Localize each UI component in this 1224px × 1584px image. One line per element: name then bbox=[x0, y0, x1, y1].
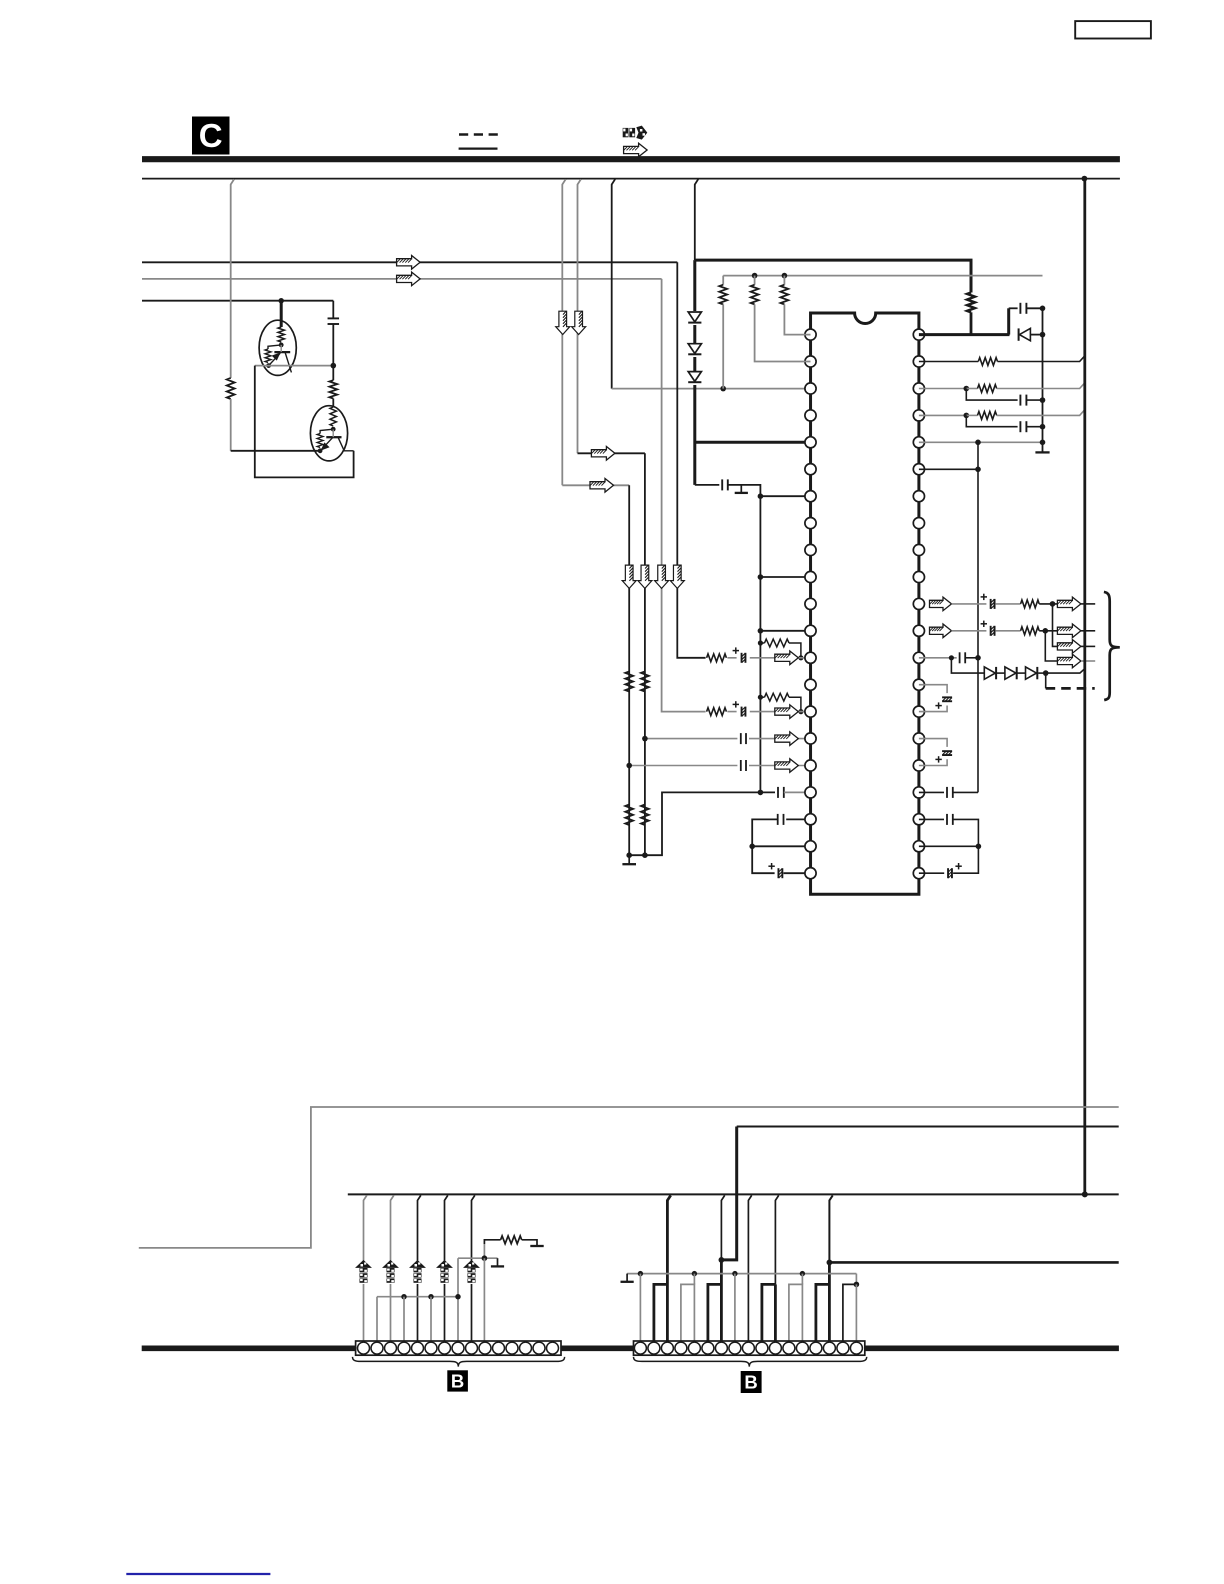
arrow flag on rail A bbox=[397, 256, 421, 270]
resistor loop p13 bbox=[760, 642, 764, 644]
wire p4r cap branch bbox=[966, 415, 1017, 426]
checkered flag CN1 pin1 bbox=[356, 1261, 371, 1284]
capacitor polarized C-p21r bbox=[947, 868, 949, 878]
wire cap to corner bbox=[728, 485, 761, 793]
bus thick bottom left bbox=[142, 1346, 356, 1352]
checkered flag CN1 pin3 bbox=[383, 1261, 398, 1284]
wire p12r branch bbox=[1045, 631, 1057, 661]
wire cn1 drop p4 bbox=[403, 1297, 405, 1341]
short underline bbox=[459, 148, 498, 150]
ground T mid bbox=[735, 485, 748, 493]
hook CN2 p2-p3 bbox=[654, 1284, 668, 1341]
capacitor C-r3 bbox=[1019, 395, 1021, 406]
wire p18r to v978 bbox=[953, 791, 978, 793]
hook CN2 p12-p13 bbox=[789, 1284, 803, 1341]
wire rail B bbox=[142, 278, 662, 280]
node CN2 dist p1 bbox=[638, 1271, 643, 1276]
svg-text:C: C bbox=[199, 117, 223, 154]
resistor R-cn1 bbox=[483, 1244, 485, 1258]
wire col D thick bbox=[693, 260, 696, 485]
capacitor polarized p13 bbox=[733, 647, 750, 664]
wire row p4r bbox=[919, 414, 966, 416]
arrow flag row p15 bbox=[775, 705, 799, 719]
wire lower bus bbox=[348, 1193, 1119, 1195]
capacitor C-r1 bbox=[1019, 303, 1021, 314]
wire p11r branch bbox=[1053, 604, 1058, 647]
wire p11r a bbox=[952, 603, 987, 605]
transistor Q1 body bbox=[259, 320, 296, 375]
wire rail C bbox=[142, 300, 333, 302]
wire col A upper bbox=[562, 179, 565, 485]
wire p4r cap to node bbox=[1026, 426, 1042, 428]
wire cn1 gray link bbox=[458, 1257, 498, 1259]
wire CN2 p5 up bbox=[693, 1274, 695, 1285]
wire row p19 bbox=[786, 818, 810, 820]
arrow flag down col A bbox=[556, 311, 570, 335]
wire CN2 riser p9 bbox=[748, 1195, 751, 1341]
node pullup r1 bbox=[782, 273, 788, 279]
node CN2 hook G bbox=[854, 1282, 860, 1288]
resistor col2 upper bbox=[641, 672, 649, 692]
node loop tap p15 bbox=[758, 695, 763, 700]
wire row p5r bbox=[919, 441, 1043, 443]
label box C bbox=[192, 117, 230, 155]
node cn1 dist p4 bbox=[401, 1294, 406, 1299]
diode D6 bbox=[1005, 667, 1017, 679]
capacitor C-p17 bbox=[737, 759, 749, 772]
brace CN2 bbox=[634, 1357, 867, 1367]
hook CN2 p16-p17 bbox=[843, 1284, 857, 1341]
capacitor polarized C-p16r bbox=[942, 750, 952, 752]
wire p12r b bbox=[996, 630, 1021, 632]
wire col C bbox=[612, 179, 615, 388]
node cn1 dist p8 bbox=[455, 1294, 460, 1299]
wire Q1 collector stub thick bbox=[280, 301, 283, 327]
capacitor C-d bbox=[721, 479, 723, 490]
wire p18 to pin bbox=[784, 791, 811, 793]
wire row p1 thick bbox=[919, 333, 1010, 336]
wire row p20r bbox=[919, 845, 979, 847]
wire row p7 bbox=[760, 495, 810, 497]
wire lower gray route bbox=[139, 1107, 1119, 1248]
node col2 bottom bbox=[642, 852, 648, 858]
wire p15r loop bbox=[919, 706, 947, 712]
node p5r b bbox=[1040, 440, 1046, 446]
wire p11r branch stub bbox=[1081, 645, 1095, 647]
wire CN1 riser pin5 bbox=[418, 1195, 421, 1341]
resistor Q2 internal base bbox=[330, 407, 336, 426]
node cap right bbox=[1040, 306, 1046, 312]
wire lower dark route bbox=[737, 1126, 1119, 1128]
wire col 4 bbox=[677, 262, 706, 658]
arrow flag row p16 bbox=[775, 732, 799, 746]
wire row p19r bbox=[919, 818, 944, 820]
wire Q1 base bar bbox=[274, 351, 290, 353]
wire col 3 bbox=[662, 279, 707, 712]
wire col B bend row bbox=[578, 452, 645, 454]
wire row p4r tail bbox=[997, 410, 1085, 416]
resistor R-p1 bbox=[783, 276, 785, 285]
dashed marks bbox=[459, 133, 498, 136]
hook CN2 p4-p5 bbox=[681, 1284, 695, 1341]
capacitor polarized C-p12r bbox=[990, 626, 992, 636]
wire cn1 drop p10 bbox=[483, 1258, 485, 1341]
arrow flag p12r in bbox=[930, 624, 952, 638]
wire p21 to pin bbox=[784, 872, 811, 874]
wire Q2 emitter rail bbox=[231, 450, 320, 452]
resistor R-p11r bbox=[1021, 600, 1040, 608]
wire row p18r bbox=[919, 791, 944, 793]
node p20r bbox=[976, 844, 982, 850]
arrow flag p11r out bbox=[1057, 597, 1081, 611]
wire Q1 emitter rail gray bbox=[255, 365, 333, 367]
wire rail A bbox=[142, 261, 677, 263]
node loop tap p13 bbox=[758, 640, 763, 645]
node p5r a bbox=[975, 440, 981, 446]
IC U1 body bbox=[811, 313, 919, 894]
wire Q1 collector line bbox=[285, 352, 291, 372]
node p12r bbox=[1043, 628, 1049, 634]
arrow flag row colA bbox=[590, 479, 614, 493]
wire CN2 drop p1 bbox=[639, 1274, 641, 1341]
wire cap branch lead bbox=[1009, 307, 1018, 309]
capacitor C-r4 bbox=[1019, 421, 1021, 432]
node p10 tap bbox=[758, 574, 764, 580]
wire p19r tail bbox=[953, 819, 979, 846]
wire CN1 riser pin9 bbox=[472, 1195, 475, 1341]
resistor loop p15 bbox=[760, 696, 764, 698]
ground bar R-cn1 bbox=[530, 1245, 543, 1247]
wire row p10 bbox=[760, 576, 810, 578]
capacitor C-q1 bottom lead bbox=[332, 324, 334, 365]
wire thin top rail bbox=[142, 178, 1120, 180]
resistor R-r3 bbox=[966, 388, 977, 390]
wire CN2 dist line bbox=[627, 1273, 856, 1275]
brace CN1 bbox=[353, 1357, 565, 1367]
resistor Q1 internal b-e bbox=[265, 349, 271, 363]
wire col 1 bbox=[628, 485, 630, 855]
wire cn1 dist line bbox=[377, 1296, 458, 1298]
hook CN2 p6-p7 bbox=[708, 1284, 722, 1341]
node cn1 dist p6 bbox=[428, 1294, 433, 1299]
node Q2 base bbox=[331, 427, 336, 432]
capacitor C-p13r bbox=[959, 652, 961, 663]
wire vertical v978 bbox=[977, 442, 979, 792]
capacitor C-q1 bbox=[328, 317, 340, 319]
ground T bottom left bbox=[622, 855, 636, 864]
capacitor C-p19r bbox=[946, 814, 948, 825]
wire col E lower bbox=[230, 399, 232, 451]
capacitor C-q1 top lead bbox=[332, 301, 334, 318]
arrow flag on rail B bbox=[397, 272, 421, 286]
capacitor polarized p15 bbox=[733, 701, 750, 718]
wire row p13r bbox=[919, 657, 957, 659]
wire p12r c bbox=[1039, 630, 1057, 632]
resistor Q1 internal base bbox=[278, 327, 284, 342]
wire p21r tail bbox=[953, 846, 978, 873]
arrow flag p12r out bbox=[1057, 624, 1081, 638]
arrow flag down col 4 bbox=[670, 565, 684, 589]
node Q2 emitter bbox=[318, 448, 323, 453]
node arrow tip p15 bbox=[798, 709, 803, 714]
capacitor C-p18r bbox=[946, 787, 948, 798]
wire CN2 riser p3 bbox=[667, 1195, 670, 1341]
wire p3r cap to node bbox=[1026, 399, 1042, 401]
node p11r bbox=[1050, 601, 1056, 607]
node diode right bbox=[1040, 332, 1046, 338]
wire cap to node bbox=[1026, 307, 1042, 309]
arrow flag row p17 bbox=[775, 759, 799, 773]
diode D3 bbox=[687, 371, 703, 385]
capacitor C-p19 bbox=[777, 814, 779, 825]
wire cn1 drop p2 bbox=[376, 1297, 378, 1341]
wire main right vertical bbox=[1083, 179, 1086, 1195]
wire CN2 riser p11 bbox=[775, 1195, 778, 1284]
arrow flag down col 1 bbox=[622, 565, 636, 589]
wire d5-d6 bbox=[997, 672, 1005, 674]
svg-text:B: B bbox=[744, 1372, 757, 1393]
wire p13r diode branch bbox=[951, 658, 984, 673]
arrow flag p11r branch bbox=[1057, 640, 1081, 654]
wire CN1 riser pin1 bbox=[364, 1195, 367, 1341]
wire row p15 main bbox=[707, 711, 811, 713]
wire col D foot bbox=[695, 484, 720, 486]
node p3r cap bbox=[1040, 397, 1046, 403]
node Q1 emitter bbox=[266, 363, 271, 368]
wire dashed out bbox=[1046, 687, 1095, 690]
wire row p16 bbox=[645, 738, 811, 740]
node Q1 base bbox=[279, 343, 284, 348]
bus thick bottom mid bbox=[561, 1346, 634, 1352]
node Q1 cap junction bbox=[331, 363, 337, 369]
node p4r cap bbox=[1040, 424, 1046, 430]
node CN2 dist p13 bbox=[800, 1271, 805, 1276]
node col2 p16 tap bbox=[642, 736, 648, 742]
wire diode to node bbox=[1030, 334, 1042, 336]
wire col1 col2 bottom join bbox=[629, 792, 775, 855]
checkered flag CN1 pin9 bbox=[464, 1261, 479, 1284]
wire p13r dash drop bbox=[1045, 673, 1047, 688]
wire col 2 bbox=[644, 453, 646, 855]
wire Q1 base hook bbox=[268, 345, 281, 349]
wire p3r cap branch bbox=[966, 389, 1017, 401]
wire row p3r bbox=[919, 388, 966, 390]
resistor R-vcc bbox=[967, 293, 975, 313]
wire p11r b bbox=[996, 603, 1021, 605]
node rail C to Q1 bbox=[279, 298, 284, 303]
resistor on col E bbox=[227, 378, 235, 399]
wire row p13 main bbox=[707, 657, 811, 659]
node CN2 p15 branch bbox=[827, 1260, 833, 1266]
capacitor polarized C-p11r bbox=[990, 599, 992, 609]
arrow flag row p13 bbox=[775, 651, 799, 665]
hatched arrow flag top bbox=[624, 143, 648, 157]
node p20 left tap bbox=[749, 844, 755, 850]
diode D2 bbox=[687, 343, 703, 357]
wire p17r loop bbox=[919, 759, 947, 765]
transistor Q1 emitter arrow bbox=[269, 353, 281, 365]
resistor series p13 bbox=[706, 653, 728, 663]
wire row p3r tail bbox=[997, 383, 1085, 389]
resistor R-p12r bbox=[1021, 627, 1040, 635]
resistor R-r2 bbox=[978, 358, 997, 366]
wire p11r c bbox=[1039, 603, 1057, 605]
diode D5 bbox=[984, 667, 996, 679]
node p7 tap bbox=[758, 493, 764, 499]
diode D4 bbox=[1019, 328, 1031, 340]
transistor Q2 emitter arrow bbox=[321, 437, 333, 450]
wire row p12 bbox=[760, 630, 810, 632]
connector CN2 bbox=[634, 1341, 865, 1355]
node CN2 p7 jog bbox=[719, 1257, 725, 1263]
node CN2 dist p8 bbox=[732, 1271, 737, 1276]
bus thick bottom right bbox=[865, 1346, 1119, 1352]
wire CN1 riser pin7 bbox=[445, 1195, 448, 1341]
node p18 tap bbox=[758, 790, 764, 796]
wire R-vcc lower lead bbox=[970, 312, 973, 334]
wire CN2 p13 up bbox=[801, 1274, 803, 1285]
node p3r bbox=[964, 386, 970, 392]
wire row p6r bbox=[919, 468, 978, 470]
bus thick top bbox=[142, 156, 1120, 162]
checkered flag CN1 pin5 bbox=[410, 1261, 425, 1284]
node cn1 link bbox=[482, 1255, 488, 1261]
node col1 p17 tap bbox=[626, 763, 632, 769]
wire col D upper bbox=[695, 179, 698, 260]
IC U1 left pins bbox=[805, 329, 816, 879]
capacitor C-p18 bbox=[777, 787, 779, 798]
wire d6-d7 bbox=[1018, 672, 1026, 674]
diode D7 bbox=[1026, 667, 1038, 679]
node p6r bbox=[975, 467, 981, 473]
wire CN2 p11 drop bbox=[774, 1284, 777, 1341]
IC U1 right pins bbox=[913, 329, 924, 879]
wire cn1 drop p6 bbox=[430, 1297, 432, 1341]
node pullup r2 bbox=[752, 273, 758, 279]
arrow flag down col 3 bbox=[655, 565, 669, 589]
checkered flag CN1 pin7 bbox=[437, 1261, 452, 1284]
ground T cn1 link bbox=[491, 1258, 504, 1266]
node CN2 dist p5 bbox=[692, 1271, 697, 1276]
wire pullup rail bbox=[723, 275, 1042, 277]
label box B1 bbox=[447, 1370, 468, 1391]
wire row p2r bbox=[919, 361, 978, 363]
wire p14r loop bbox=[919, 685, 947, 693]
wire CN2 p17 drop bbox=[855, 1284, 857, 1341]
resistor R-r4 bbox=[966, 414, 977, 416]
resistor series p15 bbox=[706, 707, 728, 717]
wire row p5 thick bbox=[695, 441, 811, 444]
resistor col1 upper bbox=[625, 672, 633, 692]
label box B2 bbox=[741, 1371, 762, 1393]
wire col E drop bbox=[231, 179, 234, 378]
wire col B upper bbox=[578, 179, 581, 453]
wire CN2 p15 drop bbox=[828, 1262, 831, 1341]
blank reference box top right bbox=[1075, 21, 1151, 38]
node p13r v978 bbox=[975, 655, 981, 661]
resistor col2 lower bbox=[641, 805, 649, 826]
resistor R-p2 bbox=[754, 276, 756, 285]
wire lower branch right bbox=[829, 1261, 1118, 1264]
arrow flag p11r in bbox=[930, 597, 952, 611]
wire p12r stub bbox=[1081, 630, 1095, 632]
node arrow tip p13 bbox=[798, 655, 803, 660]
resistor R-p3 bbox=[722, 276, 724, 285]
node p3 row junction bbox=[720, 386, 726, 392]
resistor Q2 internal b-e bbox=[317, 434, 323, 448]
wire Q2 base bar bbox=[326, 436, 341, 438]
node p13r bbox=[949, 655, 954, 660]
wire vertical v1042 bbox=[1042, 308, 1044, 452]
arrow flag down col 2 bbox=[638, 565, 652, 589]
resistor R-q2 top bbox=[329, 380, 337, 398]
wire Q1-Q2 feedback loop bbox=[255, 366, 354, 478]
wire CN2 riser p15 bbox=[829, 1195, 832, 1262]
capacitor polarized C-p14r bbox=[942, 696, 952, 698]
capacitor polarized C-p21L bbox=[777, 868, 779, 878]
hook CN2 p10-p11 bbox=[762, 1284, 776, 1341]
wire cap branch riser bbox=[1007, 308, 1010, 334]
svg-text:B: B bbox=[451, 1371, 464, 1392]
node p13r diode bbox=[1043, 670, 1049, 676]
wire CN2 dist end drop bbox=[855, 1274, 857, 1285]
wire row p17 bbox=[629, 765, 810, 767]
connector CN1 bbox=[356, 1341, 561, 1355]
brace right bbox=[1104, 592, 1120, 700]
diode D1 bbox=[687, 311, 703, 325]
wire row p20 bbox=[752, 845, 810, 847]
ground bar v1042 bbox=[1035, 451, 1049, 453]
wire Q2 collector line bbox=[338, 437, 354, 451]
node top rail junction bbox=[1082, 176, 1088, 182]
node col1 bottom bbox=[626, 852, 632, 858]
wire row p21r bbox=[919, 872, 944, 874]
node right vertical bottom bbox=[1082, 1191, 1088, 1197]
wire cap node to resistor bbox=[332, 366, 334, 381]
transistor Q2 body bbox=[310, 406, 347, 461]
ground T CN2 bbox=[621, 1274, 634, 1282]
wire p16r loop bbox=[919, 739, 947, 747]
hook CN2 p14-p15 bbox=[816, 1284, 830, 1341]
wire CN2 p7 drop bbox=[720, 1260, 723, 1341]
resistor col1 lower bbox=[625, 805, 633, 826]
wire p19 loop bbox=[752, 819, 778, 873]
wire d7 to node bbox=[1038, 672, 1046, 674]
wire p12r branch stub bbox=[1081, 660, 1095, 662]
capacitor C-p16 bbox=[737, 732, 749, 745]
wire row VCC thick bbox=[695, 260, 971, 292]
arrow flag row colB bbox=[591, 447, 615, 461]
footer blue line bbox=[126, 1573, 270, 1575]
wire col A bend row bbox=[562, 484, 629, 486]
arrow flag p12r branch bbox=[1057, 654, 1081, 668]
wire row p2r tail bbox=[998, 356, 1085, 362]
wire p13r cap to v978 bbox=[965, 657, 978, 659]
wire cn1 drop p8 bbox=[457, 1258, 459, 1341]
node p12 tap bbox=[758, 628, 764, 634]
checkered arrow flag top bbox=[623, 126, 648, 140]
wire p12r a bbox=[952, 630, 987, 632]
wire thick drop conn2 bbox=[721, 1127, 736, 1260]
wire p13r to bus bbox=[1046, 669, 1085, 674]
wire p11r stub bbox=[1081, 603, 1095, 605]
arrow flag down col B bbox=[572, 311, 586, 335]
wire Q2 base hook bbox=[320, 429, 333, 433]
wire row p3 bbox=[612, 388, 811, 390]
wire CN2 drop p8 bbox=[734, 1274, 736, 1341]
wire CN1 riser pin3 bbox=[391, 1195, 394, 1341]
wire CN2 riser p7 bbox=[721, 1195, 724, 1260]
